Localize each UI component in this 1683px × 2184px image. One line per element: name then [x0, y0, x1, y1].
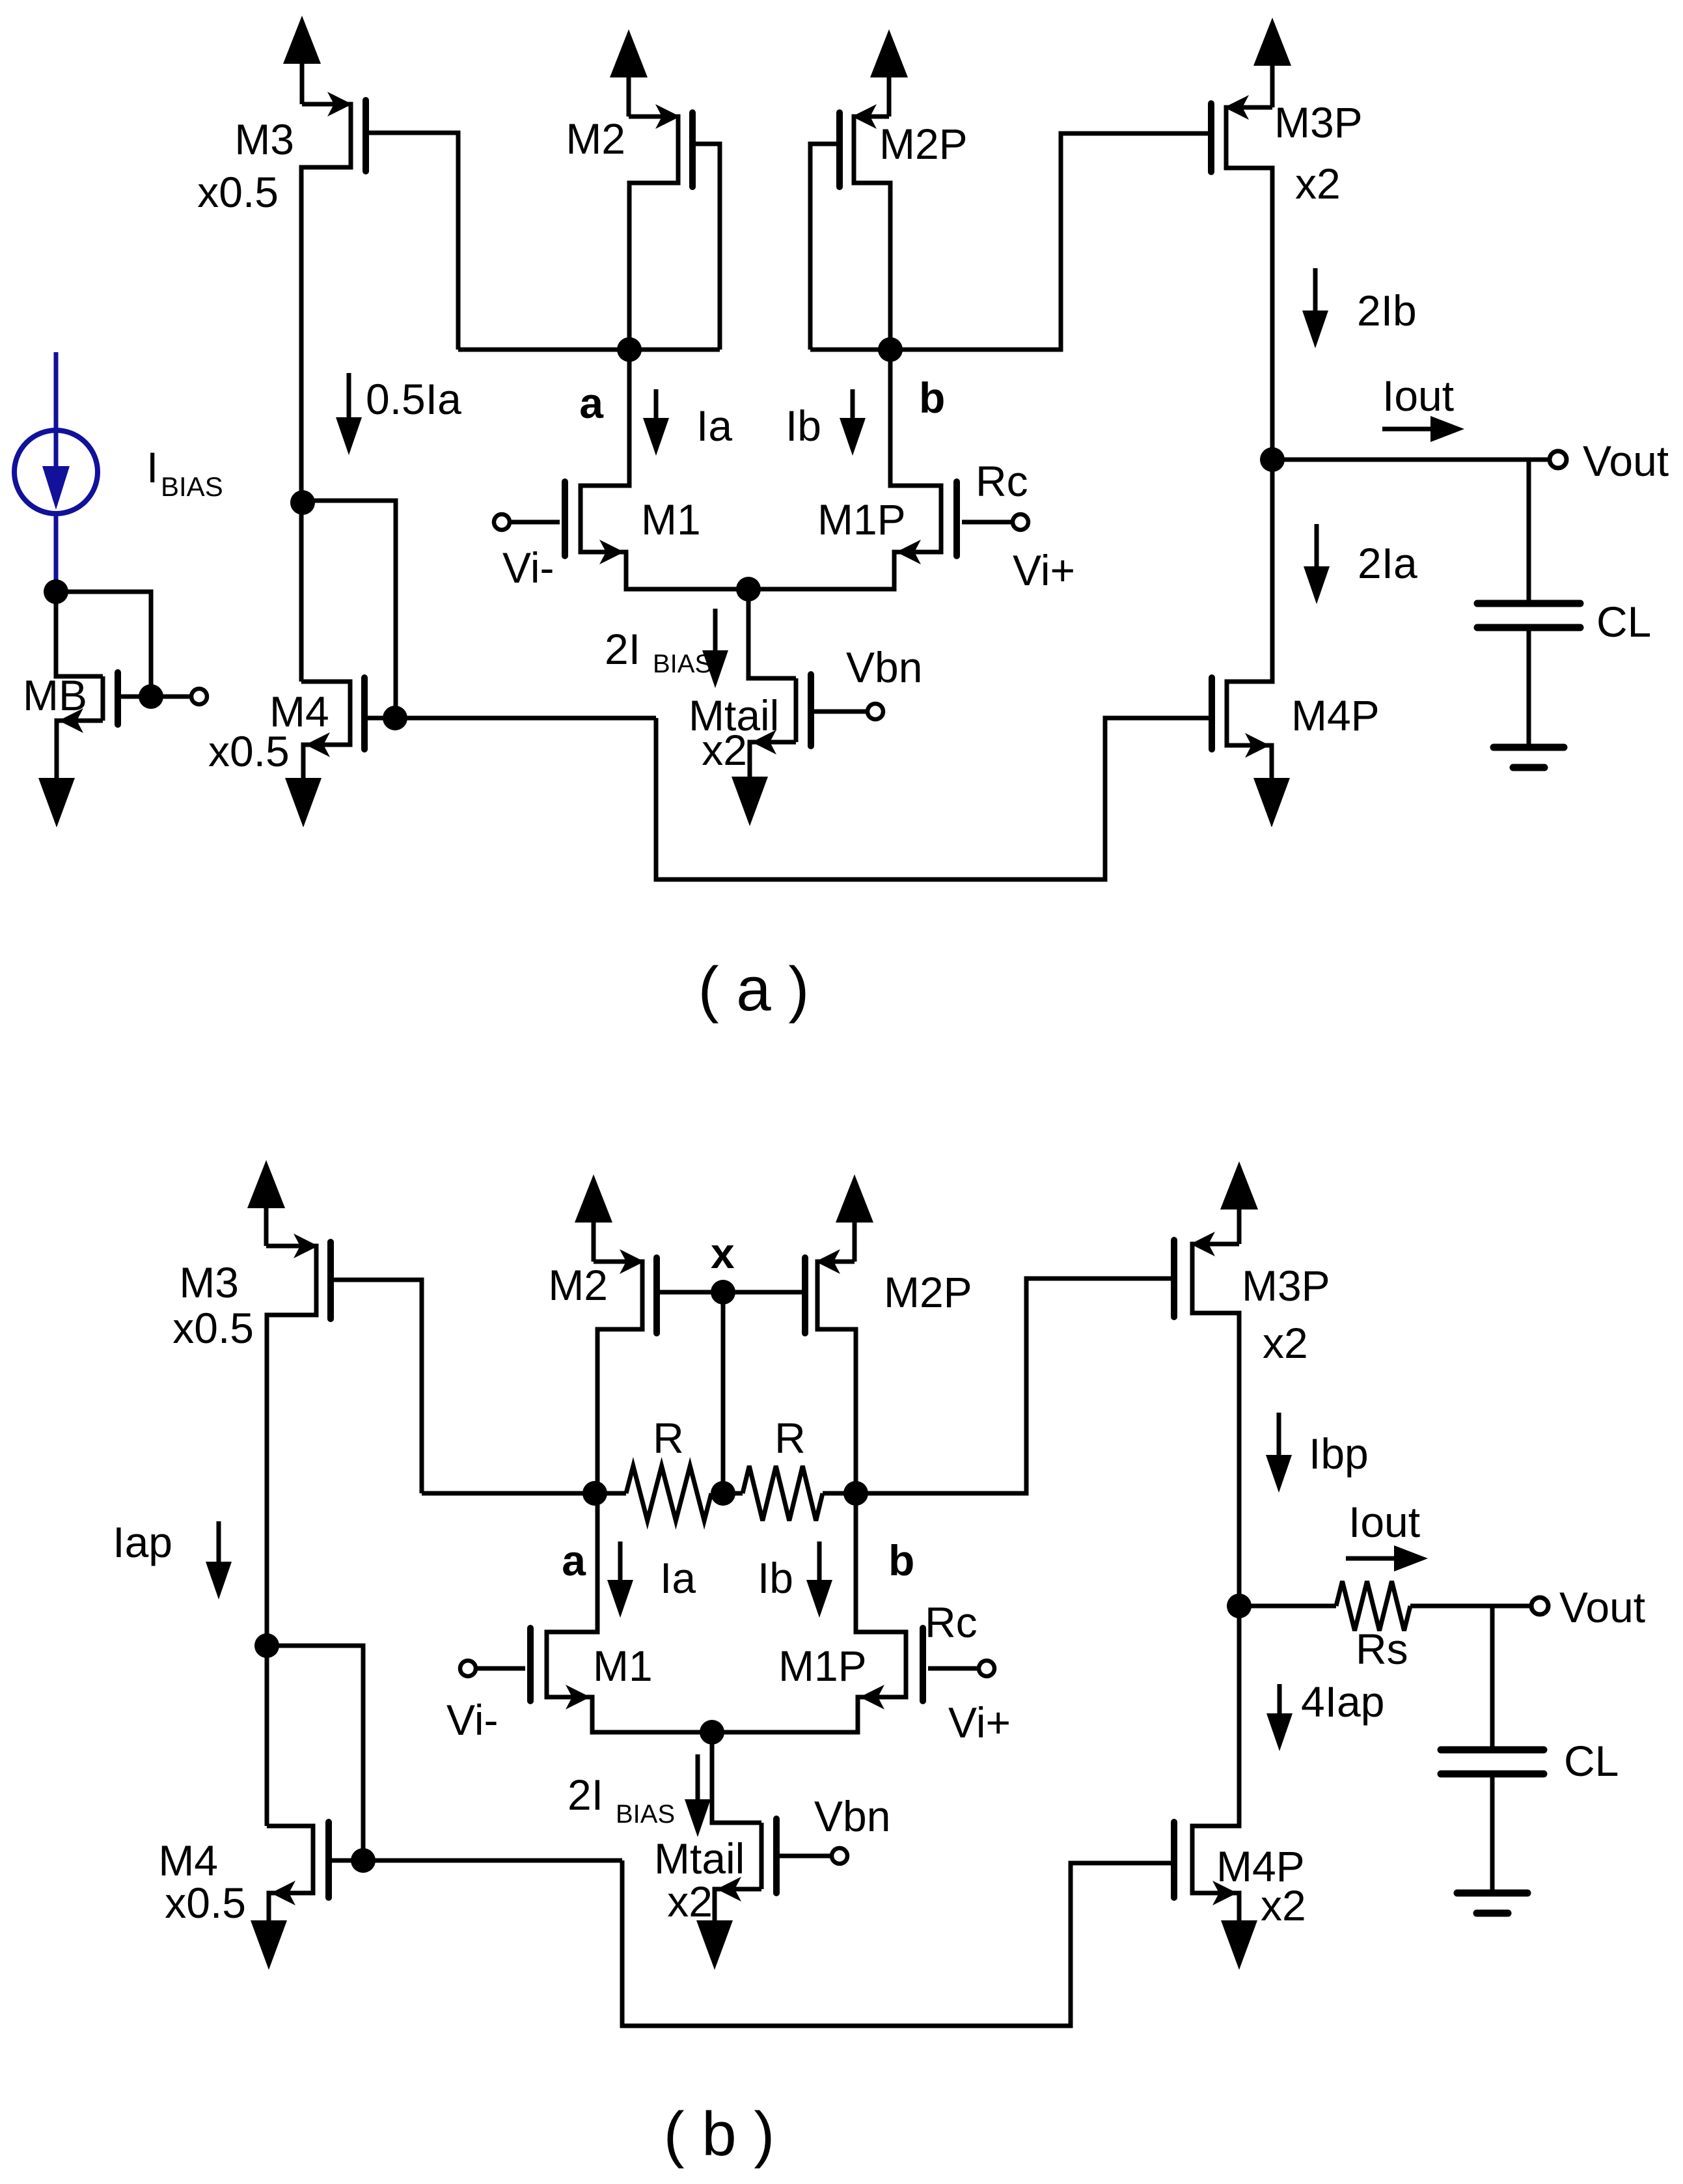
node a junction dot (fig a)	[617, 337, 642, 362]
transistor M2 gate bar and gate wire (fig a)	[692, 113, 720, 350]
svg-text:M4: M4	[158, 1836, 218, 1885]
VDD supply symbol above M3P (fig a)	[1253, 18, 1291, 107]
svg-text:Vi-: Vi-	[502, 544, 554, 592]
transistor M3P (fig b): source/channel/drain path	[1190, 1232, 1239, 1606]
wire from M3 gate to node a and M2 gate (fig a)	[458, 348, 720, 352]
label Vi+ (fig b)	[948, 1698, 1011, 1747]
VDD supply symbol above M2P (fig a)	[870, 29, 908, 117]
label Vout (fig a)	[1583, 437, 1669, 485]
label M2P (fig a)	[879, 120, 968, 168]
svg-text:Iout: Iout	[1348, 1498, 1420, 1546]
svg-text:Rs: Rs	[1356, 1625, 1408, 1673]
terminal circle Vi+ (fig a)	[1013, 514, 1028, 530]
label 2IBIAS (fig a)	[605, 625, 712, 678]
svg-text:Rc: Rc	[976, 457, 1028, 505]
label Rc (fig b)	[925, 1598, 978, 1646]
svg-text:M1: M1	[593, 1642, 653, 1690]
svg-text:BIAS: BIAS	[653, 650, 712, 678]
junction dot on M3/M4 drain line (fig a)	[290, 490, 315, 515]
label node b (fig b)	[888, 1536, 914, 1584]
svg-text:b: b	[888, 1536, 914, 1584]
resistor R (right) (fig b)	[743, 1466, 856, 1521]
svg-text:CL: CL	[1596, 598, 1651, 646]
ground symbol under MB (fig a)	[38, 778, 75, 827]
transistor M4 (fig b): drain lead, channel, source to ground	[267, 1826, 313, 1920]
svg-text:x: x	[711, 1229, 735, 1277]
output node junction dot (fig a)	[1260, 447, 1285, 472]
current arrow Ib (fig a)	[840, 389, 866, 456]
label M3 (fig a)	[234, 115, 294, 163]
VDD supply symbol above M3 (fig b)	[247, 1160, 285, 1246]
label Vi- (fig a)	[502, 544, 554, 592]
label Rc (fig a)	[976, 457, 1028, 505]
junction dot on MB gate wire (fig a)	[139, 684, 163, 709]
current arrow 4Iap (fig b)	[1266, 1684, 1293, 1751]
node b junction dot (fig b)	[843, 1481, 868, 1506]
transistor M4P (fig a): drain/channel/source path	[1227, 460, 1272, 778]
terminal circle Vout (fig b)	[1531, 1597, 1548, 1614]
label M3 (fig b)	[179, 1258, 239, 1306]
wire tail node to Mtail drain (fig a)	[748, 589, 796, 678]
svg-text:0.5Ia: 0.5Ia	[366, 375, 461, 423]
label M1P (fig a)	[817, 495, 906, 544]
svg-text:MB: MB	[23, 671, 87, 719]
current arrow Ibp (fig b)	[1266, 1413, 1292, 1493]
svg-text:Ibp: Ibp	[1309, 1430, 1369, 1478]
ground symbol under M4 (fig b)	[251, 1920, 287, 1970]
capacitor CL (fig a)	[1477, 603, 1580, 628]
label x0.5 of M4 (fig a)	[208, 727, 290, 775]
svg-text:BIAS: BIAS	[161, 471, 223, 502]
svg-text:M1P: M1P	[817, 495, 906, 544]
svg-text:2Ib: 2Ib	[1357, 286, 1417, 335]
svg-text:x0.5: x0.5	[165, 1879, 246, 1927]
transistor M2 gate bar and gate wire to node x (fig b)	[657, 1258, 723, 1333]
label x2 of M3P (fig b)	[1263, 1319, 1308, 1367]
svg-text:4Iap: 4Iap	[1301, 1678, 1384, 1726]
wire from M2P gate to node b (fig a)	[810, 348, 890, 352]
transistor M2 (fig a): source/channel/drain path	[629, 104, 680, 350]
VDD supply symbol above M3P (fig b)	[1220, 1161, 1258, 1244]
label Iap (fig b)	[113, 1518, 172, 1566]
transistor M3 (fig a): source/channel/drain path	[301, 92, 352, 503]
label M4 (fig a)	[269, 687, 329, 736]
label 4Iap (fig b)	[1301, 1678, 1384, 1726]
caption ( b )	[664, 2099, 775, 2169]
label M2 (fig a)	[566, 115, 625, 163]
terminal circle Vbn (fig a)	[868, 704, 883, 719]
transistor Mtail gate bar and gate wire (fig b)	[776, 1819, 832, 1893]
svg-text:Vout: Vout	[1559, 1583, 1645, 1631]
junction dot at IBIAS/MB drain (fig a)	[44, 579, 68, 604]
svg-text:M2: M2	[548, 1261, 608, 1309]
svg-text:R: R	[653, 1414, 684, 1462]
svg-text:( a ): ( a )	[698, 954, 810, 1024]
svg-text:M3: M3	[179, 1258, 239, 1306]
label node a (fig a)	[579, 379, 604, 427]
label Iout (fig b)	[1348, 1498, 1420, 1546]
transistor M2P gate bar and gate wire (fig a)	[810, 113, 840, 350]
terminal circle Vout (fig a)	[1550, 451, 1567, 468]
current arrow Ia (fig b)	[607, 1541, 633, 1618]
node x junction dot (fig b)	[711, 1280, 735, 1305]
label Rs (fig b)	[1356, 1625, 1408, 1673]
transistor M4 gate bar and gate wire (fig a)	[364, 678, 656, 749]
transistor MB (fig a): channel and source to ground	[57, 676, 103, 778]
label M4P (fig a)	[1291, 691, 1380, 740]
label 0.5Ia (fig a)	[366, 375, 461, 423]
current arrow Ia (fig a)	[643, 389, 669, 456]
label Ia (fig a)	[696, 402, 732, 450]
earth ground under CL (fig a)	[1494, 747, 1564, 767]
label M1P (fig b)	[778, 1642, 867, 1690]
svg-text:M2: M2	[566, 115, 625, 163]
svg-text:x0.5: x0.5	[197, 168, 279, 216]
terminal circle Vi- (fig a)	[494, 514, 510, 530]
transistor M3P gate bar and wire to node b (fig b)	[856, 1240, 1174, 1493]
label Mtail (fig b)	[654, 1834, 745, 1883]
svg-text:BIAS: BIAS	[616, 1800, 675, 1829]
transistor MB gate bar and gate wire (fig a)	[118, 672, 191, 725]
VDD supply symbol above M2 (fig a)	[610, 29, 648, 117]
transistor M2 (fig b): source/channel/drain path	[594, 1249, 644, 1493]
wire M4 gate to M4P gate routed below (fig b)	[622, 1860, 1171, 2026]
label Ib (fig b)	[758, 1554, 793, 1602]
transistor M3P gate bar and gate wire to node b (fig a)	[890, 104, 1211, 350]
current arrow 2IBIAS (fig a)	[702, 609, 728, 688]
transistor M3 gate bar and gate wire (fig a)	[366, 100, 458, 350]
caption ( a )	[698, 954, 810, 1024]
output wire to Vout (fig a)	[1272, 458, 1550, 462]
wire M3 drain down to M4 drain (fig a)	[299, 503, 304, 682]
svg-text:Ia: Ia	[696, 402, 732, 450]
label Vout (fig b)	[1559, 1583, 1645, 1631]
transistor M1 (fig b): drain/channel/source path	[547, 1493, 712, 1732]
label node a (fig b)	[562, 1536, 586, 1584]
svg-text:x0.5: x0.5	[208, 727, 290, 775]
label 2Ia (fig a)	[1358, 539, 1417, 587]
svg-text:Vi+: Vi+	[1013, 546, 1075, 594]
terminal circle Vi- (fig b)	[460, 1661, 476, 1676]
svg-text:b: b	[919, 374, 945, 422]
wire output node to resistor Rs (fig b)	[1239, 1604, 1336, 1609]
svg-text:Ia: Ia	[660, 1554, 696, 1602]
svg-text:M3P: M3P	[1274, 98, 1363, 146]
capacitor CL (fig b)	[1441, 1750, 1544, 1774]
label M1 (fig b)	[593, 1642, 653, 1690]
label Vi+ (fig a)	[1013, 546, 1075, 594]
label x2 of Mtail (fig b)	[667, 1877, 713, 1926]
current arrow Iout (fig b)	[1346, 1545, 1428, 1571]
label x2 of M3P (fig a)	[1295, 159, 1341, 208]
junction dot on M3/M4 drain line (fig b)	[254, 1633, 279, 1658]
svg-text:M1: M1	[641, 495, 701, 544]
ground symbol under Mtail (fig a)	[732, 777, 768, 826]
svg-text:Vi+: Vi+	[948, 1698, 1011, 1747]
label Vbn (fig a)	[846, 643, 922, 691]
label Ib (fig a)	[786, 402, 821, 450]
label IBIAS (fig a)	[146, 443, 223, 502]
label CL (fig b)	[1564, 1737, 1619, 1785]
label x0.5 of M3 (fig a)	[197, 168, 279, 216]
svg-text:Iout: Iout	[1382, 372, 1454, 420]
junction dot on M4 gate wire (fig a)	[383, 706, 407, 730]
label Iout (fig a)	[1382, 372, 1454, 420]
label Vi- (fig b)	[446, 1696, 498, 1744]
label M1 (fig a)	[641, 495, 701, 544]
ground symbol under M4P (fig a)	[1253, 778, 1290, 827]
transistor M3P (fig a): source/channel/drain path	[1224, 95, 1272, 460]
svg-text:M2P: M2P	[879, 120, 968, 168]
wire M4 gate to M4P gate routed below (fig a)	[656, 718, 1209, 879]
label x0.5 of M3 (fig b)	[172, 1304, 254, 1352]
svg-text:Mtail: Mtail	[654, 1834, 745, 1883]
label 2Ib (fig a)	[1357, 286, 1417, 335]
svg-text:2Ia: 2Ia	[1358, 539, 1417, 587]
diode link wire from drain line to M4 gate (fig a)	[303, 501, 396, 718]
transistor Mtail gate bar and gate wire (fig a)	[811, 674, 868, 746]
svg-text:Iap: Iap	[113, 1518, 172, 1566]
transistor M1P gate wire and gate bar (fig a)	[957, 482, 1013, 556]
label M3P (fig b)	[1242, 1262, 1330, 1310]
svg-text:CL: CL	[1564, 1737, 1619, 1785]
svg-text:( b ): ( b )	[664, 2099, 775, 2169]
wire capacitor to ground (fig a)	[1527, 628, 1531, 747]
current arrow 2IBIAS (fig b)	[685, 1754, 711, 1837]
junction dot on M4 gate wire (fig b)	[351, 1848, 376, 1873]
current arrow 0.5Ia (fig a)	[336, 373, 362, 455]
transistor M1 gate wire and gate bar (fig a)	[510, 482, 565, 556]
wire M3 drain to M4 drain (fig b)	[265, 1646, 269, 1826]
wire M3 gate drop to node a (fig b)	[422, 1491, 595, 1496]
svg-text:2I: 2I	[568, 1771, 603, 1819]
svg-text:I: I	[146, 443, 158, 491]
transistor M1 (fig a): drain/channel/source path	[581, 350, 748, 589]
current source IBIAS circle (fig a)	[14, 352, 98, 589]
label x2 of Mtail (fig a)	[702, 726, 747, 774]
svg-text:Vout: Vout	[1583, 437, 1669, 485]
label Mtail (fig a)	[689, 691, 779, 740]
capacitor CL branch wire (fig b)	[1490, 1606, 1495, 1750]
label M3P (fig a)	[1274, 98, 1363, 146]
resistor R (left) (fig b)	[595, 1466, 711, 1521]
svg-text:Vbn: Vbn	[846, 643, 922, 691]
transistor M4 (fig a): drain lead, channel, source to ground	[301, 682, 350, 778]
ground symbol under M4P (fig b)	[1221, 1920, 1257, 1970]
svg-text:R: R	[774, 1414, 806, 1462]
tail junction dot (fig b)	[700, 1720, 724, 1745]
terminal circle at MB gate (fig a)	[191, 689, 207, 704]
node b junction dot (fig a)	[878, 337, 903, 362]
transistor M2P (fig b): source/channel/drain path	[815, 1249, 856, 1493]
wire node x down to resistor centre tap (fig b)	[721, 1292, 726, 1493]
svg-text:Ib: Ib	[786, 402, 821, 450]
svg-text:M1P: M1P	[778, 1642, 867, 1690]
label x0.5 of M4 (fig b)	[165, 1879, 246, 1927]
label R left (fig b)	[653, 1414, 684, 1462]
label Ibp (fig b)	[1309, 1430, 1369, 1478]
output node junction dot (fig b)	[1227, 1594, 1252, 1618]
tail junction dot (fig a)	[736, 577, 761, 601]
svg-text:M2P: M2P	[884, 1268, 972, 1316]
resistor Rs (fig b)	[1336, 1581, 1410, 1631]
node a junction dot (fig b)	[582, 1481, 607, 1506]
transistor M4 gate bar and gate wire (fig b)	[329, 1822, 622, 1898]
transistor M4P (fig b): drain/channel/source path	[1192, 1606, 1239, 1920]
label R right (fig b)	[774, 1414, 806, 1462]
svg-text:x2: x2	[1263, 1319, 1308, 1367]
label Ia (fig b)	[660, 1554, 696, 1602]
ground symbol under Mtail (fig b)	[696, 1920, 733, 1970]
label MB (fig a)	[23, 671, 87, 719]
svg-text:Vi-: Vi-	[446, 1696, 498, 1744]
transistor Mtail (fig a): channel and source to ground	[750, 678, 796, 777]
earth ground under CL (fig b)	[1457, 1893, 1527, 1913]
label M2P (fig b)	[884, 1268, 972, 1316]
label M4 (fig b)	[158, 1836, 218, 1885]
transistor M3 gate bar and gate wire (fig b)	[331, 1242, 422, 1493]
svg-text:M3: M3	[234, 115, 294, 163]
terminal circle Vi+ (fig b)	[979, 1661, 994, 1676]
transistor M2P gate bar and gate wire to node x (fig b)	[723, 1258, 805, 1333]
capacitor CL branch wire (fig a)	[1527, 460, 1531, 603]
label x2 of M4P (fig b)	[1261, 1881, 1306, 1929]
svg-text:x0.5: x0.5	[172, 1304, 254, 1352]
transistor M2P (fig a): source/channel/drain path	[852, 104, 890, 350]
diode link wire to M4 gate (fig b)	[267, 1646, 363, 1860]
transistor M1P gate wire and gate bar (fig b)	[923, 1628, 979, 1701]
wire IBIAS to MB drain and gate link (fig a)	[56, 589, 151, 697]
svg-text:a: a	[579, 379, 604, 427]
resistor centre junction dot (fig b)	[711, 1481, 743, 1506]
transistor M4P gate bar (fig b)	[1171, 1822, 1177, 1898]
current arrow Iap (fig b)	[206, 1521, 232, 1599]
label M2 (fig b)	[548, 1261, 608, 1309]
svg-text:x2: x2	[702, 726, 747, 774]
svg-text:Rc: Rc	[925, 1598, 978, 1646]
svg-text:Ib: Ib	[758, 1554, 793, 1602]
transistor Mtail (fig b): channel and source to ground	[715, 1823, 761, 1920]
VDD supply symbol above M2 (fig b)	[575, 1174, 612, 1262]
svg-text:2I: 2I	[605, 625, 640, 673]
svg-text:x2: x2	[667, 1877, 713, 1926]
transistor M1P (fig b): drain/channel/source path	[712, 1493, 906, 1732]
wire tail node to Mtail drain (fig b)	[712, 1732, 761, 1823]
label node x (fig b)	[711, 1229, 735, 1277]
label node b (fig a)	[919, 374, 945, 422]
wire capacitor to ground (fig b)	[1490, 1774, 1495, 1893]
current arrow Iout (fig a)	[1382, 416, 1464, 442]
svg-text:M3P: M3P	[1242, 1262, 1330, 1310]
label CL (fig a)	[1596, 598, 1651, 646]
ground symbol under M4 (fig a)	[285, 778, 322, 827]
VDD supply symbol above M2P (fig b)	[836, 1174, 873, 1262]
label 2IBIAS (fig b)	[568, 1771, 675, 1829]
label M4P (fig b)	[1216, 1842, 1305, 1890]
terminal circle Vbn (fig b)	[832, 1848, 847, 1864]
current arrow Ib (fig b)	[806, 1541, 832, 1618]
svg-text:M4P: M4P	[1291, 691, 1380, 740]
transistor M1P (fig a): drain/channel/source path	[748, 350, 941, 589]
transistor M1 gate wire and gate bar (fig b)	[476, 1628, 530, 1701]
svg-text:x2: x2	[1261, 1881, 1306, 1929]
transistor M4P gate bar (fig a)	[1209, 678, 1215, 749]
transistor M3 (fig b): source/channel/drain path	[266, 1234, 318, 1646]
wire resistor Rs to Vout (fig b)	[1410, 1604, 1531, 1609]
svg-text:x2: x2	[1295, 159, 1341, 208]
current arrow 2Ia (fig a)	[1304, 524, 1330, 604]
label Vbn (fig b)	[814, 1792, 890, 1840]
svg-text:Vbn: Vbn	[814, 1792, 890, 1840]
current arrow 2Ib (fig a)	[1302, 268, 1328, 348]
VDD supply symbol above M3 (fig a)	[283, 16, 321, 104]
svg-text:a: a	[562, 1536, 586, 1584]
